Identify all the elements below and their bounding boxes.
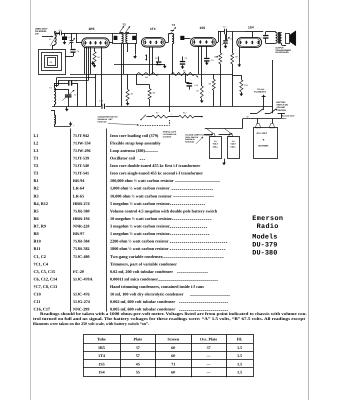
ground cathode [239, 47, 241, 63]
tube 1S4 [237, 26, 262, 48]
svg-text:R9: R9 [235, 56, 237, 59]
svg-text:C9: C9 [155, 57, 157, 60]
A battery cell 2 [228, 133, 240, 158]
wire [86, 74, 88, 106]
ground [92, 61, 94, 63]
ground [66, 107, 68, 109]
svg-text:L3: L3 [34, 148, 39, 153]
wire [245, 31, 252, 33]
svg-text:CHASSIS: CHASSIS [163, 135, 172, 138]
tube 1T4 [141, 27, 165, 47]
svg-text:10,000 ohm ½ watt carbon resis: 10,000 ohm ½ watt carbon resistor [110, 193, 172, 198]
svg-text:†C7, C8, C13: †C7, C8, C13 [34, 284, 58, 289]
parts list row R3 [34, 193, 215, 198]
tube 1R5 [82, 27, 110, 48]
B battery [254, 124, 278, 159]
svg-text:71JT-541: 71JT-541 [73, 171, 89, 176]
svg-text:Iron core loading coil (379): Iron core loading coil (379) [110, 133, 159, 138]
svg-text:10 mf, 100 volt dry electrolyt: 10 mf, 100 volt dry electrolytic condens… [110, 292, 184, 297]
wire [220, 64, 222, 107]
svg-text:R8: R8 [214, 56, 216, 59]
svg-text:ON SPEAKER: ON SPEAKER [275, 51, 289, 54]
capacitor C16 [101, 104, 102, 109]
capacitor C14 [185, 74, 187, 83]
svg-text:C3, C5, C15: C3, C5, C15 [34, 269, 56, 274]
svg-text:60: 60 [171, 353, 175, 358]
svg-text:R10: R10 [244, 84, 247, 87]
svg-text:C8: C8 [185, 57, 187, 60]
resistor R9 divider [213, 74, 215, 79]
ground [64, 40, 66, 42]
svg-text:1T4: 1T4 [150, 27, 156, 31]
parts list row R10 [34, 239, 229, 244]
svg-text:C6, C12, C14: C6, C12, C14 [34, 276, 59, 281]
svg-text:67½ VOLT: 67½ VOLT [257, 132, 268, 135]
resistor R7 [152, 115, 168, 118]
wire [272, 106, 274, 113]
svg-text:tracer: tracer [281, 117, 287, 120]
svg-text:1½: 1½ [232, 140, 235, 143]
chassis bus wire [52, 106, 101, 108]
svg-text:60: 60 [171, 370, 175, 375]
svg-text:FILAMENTS: FILAMENTS [254, 91, 267, 94]
antenna coil L1 [55, 32, 57, 45]
wire grid cap [76, 33, 113, 35]
svg-text:Iron core single-tuned 455 kc: Iron core single-tuned 455 kc second i-f… [110, 171, 203, 176]
svg-text:POSITION: POSITION [98, 120, 108, 123]
ground [241, 92, 243, 94]
svg-text:37: 37 [207, 345, 211, 350]
svg-text:C11: C11 [211, 59, 214, 62]
battery switch S1 [250, 113, 257, 115]
svg-text:CELL: CELL [213, 145, 219, 148]
parts list row R6 [34, 216, 213, 221]
wire [165, 42, 168, 44]
svg-text:1 megohm ½ watt carbon resisto: 1 megohm ½ watt carbon resistor [110, 231, 170, 236]
parts list row †C1, C4 [34, 261, 178, 266]
svg-text:71JT-540: 71JT-540 [73, 163, 89, 168]
svg-text:Models: Models [252, 233, 277, 241]
ground [224, 159, 226, 160]
wire screen rail [114, 64, 157, 66]
svg-text:Flexible strap loop assembly: Flexible strap loop assembly [110, 140, 162, 145]
wire B plus [243, 118, 281, 120]
battery switch S2 [270, 109, 276, 113]
svg-text:RR-97: RR-97 [73, 231, 84, 236]
svg-text:C1,C5: C1,C5 [67, 36, 72, 39]
resistor R12 [179, 115, 195, 118]
svg-text:T1: T1 [34, 155, 39, 160]
svg-text:C3: C3 [75, 80, 77, 83]
parts list row R5 [34, 208, 218, 213]
i-f transformer T2 [113, 23, 137, 44]
wires tube V3 pins [198, 46, 200, 74]
i-f transformer T3 [170, 23, 185, 44]
svg-text:51JG-274: 51JG-274 [73, 299, 90, 304]
svg-text:R4, R12: R4, R12 [34, 201, 48, 206]
svg-text:1S5: 1S5 [98, 361, 104, 366]
svg-text:1.5: 1.5 [237, 353, 242, 358]
capacitor C6 [70, 49, 75, 50]
chassis bus wire [106, 106, 273, 108]
resistor R8 [220, 32, 222, 54]
svg-text:R2: R2 [131, 92, 134, 95]
svg-text:VOLT: VOLT [213, 143, 219, 146]
svg-text:R2: R2 [34, 186, 39, 191]
output transformer T4 [276, 32, 282, 44]
svg-text:1R5: 1R5 [98, 345, 105, 350]
resistor R1 [94, 48, 96, 52]
grid resistor [146, 55, 148, 61]
parts list row C11 [34, 299, 229, 304]
svg-text:100,000 ohm ½ watt carbon resi: 100,000 ohm ½ watt carbon resistor [110, 178, 174, 183]
svg-text:T3: T3 [172, 23, 176, 27]
ground [94, 64, 96, 66]
svg-text:SWITCH ON: SWITCH ON [276, 104, 288, 107]
parts list row R8 [34, 231, 211, 236]
svg-text:†C1, C4: †C1, C4 [34, 261, 49, 266]
parts list row R7, R9 [34, 224, 208, 229]
parts list row R2 [34, 186, 214, 191]
svg-text:1S5: 1S5 [200, 26, 206, 30]
svg-text:R12: R12 [183, 111, 186, 114]
svg-text:0.002 mf, 600 volt tubular con: 0.002 mf, 600 volt tubular condenser [110, 299, 175, 304]
svg-text:R5: R5 [34, 208, 39, 213]
svg-text:Screen: Screen [167, 337, 179, 342]
A battery cell 1 [210, 133, 222, 158]
wire B plus riser [272, 60, 274, 106]
svg-text:RR-94: RR-94 [73, 178, 84, 183]
wire [204, 134, 213, 136]
svg-text:C12: C12 [223, 26, 226, 29]
svg-text:FC-20: FC-20 [73, 269, 84, 274]
svg-text:10 megohm ½ watt carbon resist: 10 megohm ½ watt carbon resistor [110, 216, 172, 221]
wires T2 secondary [121, 43, 123, 74]
wire [65, 33, 72, 35]
svg-text:R7, R9: R7, R9 [34, 224, 46, 229]
svg-text:71JT-942: 71JT-942 [73, 133, 89, 138]
svg-text:71: 71 [171, 361, 175, 366]
svg-text:LR-64: LR-64 [73, 186, 84, 191]
wire [101, 47, 103, 107]
svg-text:0.02 mf, 200 volt tubular cond: 0.02 mf, 200 volt tubular condenser [110, 269, 173, 274]
svg-text:1.5: 1.5 [237, 345, 242, 350]
svg-text:VOLUME: VOLUME [276, 106, 285, 109]
svg-text:Radio: Radio [257, 223, 279, 231]
wire volume control to cell [197, 134, 210, 136]
wire [272, 119, 274, 124]
wire [196, 137, 203, 144]
svg-text:R10: R10 [34, 239, 41, 244]
parts list row C6, C12, C14 [34, 276, 219, 281]
parts list row L1 [34, 133, 159, 138]
svg-text:37: 37 [136, 345, 140, 350]
svg-text:45: 45 [136, 361, 140, 366]
ground [206, 61, 208, 63]
svg-text:BATTERY: BATTERY [259, 145, 270, 148]
svg-text:0.00011 mf mica condenser: 0.00011 mf mica condenser [110, 276, 158, 281]
svg-text:Fil.: Fil. [237, 337, 243, 342]
ground [135, 43, 137, 54]
parts list column rule 2 [106, 129, 108, 312]
svg-text:Trimmers, part of variable con: Trimmers, part of variable condenser [110, 261, 177, 266]
resistor R3 [201, 74, 203, 86]
wire [266, 31, 276, 33]
svg-text:POSITION: POSITION [185, 141, 195, 144]
svg-text:LR-65: LR-65 [73, 193, 84, 198]
voltage table [83, 335, 254, 378]
oscillator coil T1 secondary [54, 115, 56, 124]
svg-text:1800 ohm ½ watt carbon resisto: 1800 ohm ½ watt carbon resistor [110, 246, 169, 251]
svg-text:Tube: Tube [97, 337, 106, 342]
svg-text:CONTROL: CONTROL [276, 109, 287, 112]
svg-text:C2: C2 [74, 94, 76, 97]
parts list row R11 [34, 246, 227, 251]
svg-text:T3: T3 [34, 171, 39, 176]
svg-text:C1, C2: C1, C2 [34, 254, 46, 259]
svg-text:HRR-274: HRR-274 [73, 201, 90, 206]
svg-text:5 megohm ½ watt carbon resisto: 5 megohm ½ watt carbon resistor [110, 201, 170, 206]
resistor R2 [126, 89, 129, 101]
svg-text:C14: C14 [195, 84, 198, 87]
wire [65, 56, 73, 58]
svg-text:BATTERY: BATTERY [276, 101, 286, 104]
svg-text:C6: C6 [77, 50, 79, 53]
svg-text:R11: R11 [34, 246, 41, 251]
svg-text:T2: T2 [34, 163, 39, 168]
svg-text:filaments were taken on the 25: filaments were taken on the 250 volt sca… [33, 321, 149, 326]
svg-text:L2: L2 [34, 140, 39, 145]
svg-text:NNR-228: NNR-228 [73, 224, 89, 229]
wire [54, 110, 56, 115]
svg-text:1.5: 1.5 [237, 361, 242, 366]
parts list row R1 [34, 178, 221, 183]
parts list row L2 [34, 140, 162, 145]
svg-text:3 megohm ½ watt carbon resisto: 3 megohm ½ watt carbon resistor [110, 224, 170, 229]
parts list row C3, C5, C15 [34, 269, 209, 274]
svg-text:Volume control 4.5 megohm with: Volume control 4.5 megohm with double po… [110, 208, 218, 213]
svg-text:1T4: 1T4 [98, 353, 105, 358]
svg-text:1.5: 1.5 [237, 370, 242, 375]
title Emerson Radio Models DU-379 DU-380 [252, 215, 283, 257]
svg-text:2200 ohm ½ watt carbon resisto: 2200 ohm ½ watt carbon resistor [110, 239, 169, 244]
wire A battery feed [242, 119, 244, 129]
svg-text:Plate: Plate [133, 337, 142, 342]
svg-text:1,000 ohm ½ watt carbon resist: 1,000 ohm ½ watt carbon resistor [110, 186, 170, 191]
wire AVC bus [70, 74, 232, 76]
parts list row C10 [34, 292, 231, 297]
iron core inductor L2 [62, 36, 67, 40]
wire [54, 83, 56, 88]
wire oscillator plate [88, 74, 90, 80]
svg-text:Two-gang variable condenser: Two-gang variable condenser [110, 254, 163, 259]
ground [159, 64, 165, 66]
resistor R6 [148, 89, 151, 100]
svg-text:1½: 1½ [214, 140, 217, 143]
svg-text:60: 60 [171, 345, 175, 350]
svg-text:71JW-334: 71JW-334 [73, 140, 91, 145]
ground [225, 44, 227, 46]
svg-text:T2: T2 [123, 23, 127, 27]
wire AVC arrow [195, 74, 198, 77]
wires tube V1 pins [84, 47, 86, 74]
resistor R10 [232, 75, 241, 77]
svg-text:1S4: 1S4 [98, 370, 104, 375]
page right edge [308, 0, 310, 400]
svg-text:C16: C16 [99, 99, 102, 102]
svg-text:Loop antenna (380): Loop antenna (380) [110, 148, 146, 153]
svg-text:75JR-380: 75JR-380 [73, 208, 90, 213]
capacitor C11 [206, 46, 208, 57]
svg-text:Osc. Plate: Osc. Plate [200, 337, 217, 342]
filament feed arrow [263, 96, 265, 109]
loudspeaker [286, 31, 296, 46]
parts list row C16, C17 [34, 307, 229, 312]
svg-text:L1: L1 [34, 133, 39, 138]
ground [127, 101, 129, 103]
svg-text:C11: C11 [34, 299, 41, 304]
svg-text:1R5: 1R5 [89, 27, 95, 31]
parts list row T3 [34, 171, 204, 176]
svg-text:51JC-470A: 51JC-470A [73, 276, 93, 281]
svg-text:Iron core double-tuned 455 kc: Iron core double-tuned 455 kc first i-f … [110, 163, 200, 168]
wire [52, 46, 54, 50]
svg-text:51JC-476: 51JC-476 [73, 292, 90, 297]
parts list column rule 1 [70, 129, 72, 312]
wire [76, 42, 82, 44]
svg-text:C10: C10 [34, 292, 41, 297]
svg-text:Hand trimming condensers, cont: Hand trimming condensers, contained insi… [110, 284, 204, 289]
wire [232, 64, 234, 107]
svg-text:71JC-480: 71JC-480 [73, 254, 90, 259]
wire [54, 32, 56, 34]
svg-text:VOLT: VOLT [231, 143, 237, 146]
parts list row L3 [34, 148, 159, 153]
capacitor C15 [265, 32, 267, 35]
svg-text:R6: R6 [34, 216, 39, 221]
svg-text:R1: R1 [34, 178, 39, 183]
trimmer capacitor C13 [226, 32, 228, 41]
svg-text:R3: R3 [34, 193, 39, 198]
svg-text:1S4: 1S4 [248, 26, 254, 30]
wire [109, 42, 113, 44]
dashed gang line [140, 125, 170, 127]
parts list row C1, C2 [34, 254, 225, 259]
svg-text:HRR-194: HRR-194 [73, 216, 90, 221]
svg-text:TO ALL: TO ALL [257, 88, 265, 91]
svg-text:Oscillator coil: Oscillator coil [110, 155, 136, 160]
svg-text:75JR-382: 75JR-382 [73, 246, 90, 251]
ground [201, 99, 203, 101]
svg-text:R8: R8 [34, 231, 39, 236]
svg-text:57: 57 [136, 353, 140, 358]
resistor R9 [232, 32, 234, 54]
svg-text:R1: R1 [98, 56, 101, 59]
wire pointer [108, 123, 138, 125]
capacitor C3 padder [54, 83, 68, 85]
wire plate rail [216, 42, 218, 44]
parts list row T2 [34, 163, 201, 168]
wire oscillator grid [95, 74, 97, 106]
svg-text:R3: R3 [196, 90, 198, 93]
parts list row R4, R12 [34, 201, 206, 206]
svg-text:R9: R9 [209, 83, 211, 86]
ground [54, 124, 56, 126]
loop antenna L3 [39, 50, 66, 75]
svg-text:CELL: CELL [230, 145, 236, 148]
svg-text:71JW-296: 71JW-296 [73, 148, 91, 153]
resistor R4 [137, 73, 159, 76]
wire [194, 116, 202, 118]
svg-text:DU-380: DU-380 [252, 249, 277, 257]
wire [121, 74, 123, 106]
tube 1S5 [190, 26, 216, 46]
parts list row T1 [34, 155, 146, 160]
parts list row †C7, C8, C13 [34, 284, 205, 289]
svg-text:DU-379: DU-379 [252, 241, 277, 249]
wire [42, 36, 53, 38]
svg-text:71JT-539: 71JT-539 [73, 155, 89, 160]
wires tube V2 pins [149, 47, 151, 74]
svg-text:75JR-384: 75JR-384 [73, 239, 90, 244]
notes paragraph [33, 311, 308, 326]
svg-text:55: 55 [136, 370, 140, 375]
tone switch S3 [169, 74, 171, 112]
svg-text:C15: C15 [259, 36, 262, 39]
page left edge [30, 0, 32, 400]
wire [168, 116, 179, 118]
resistor R5 diode load [172, 72, 195, 75]
